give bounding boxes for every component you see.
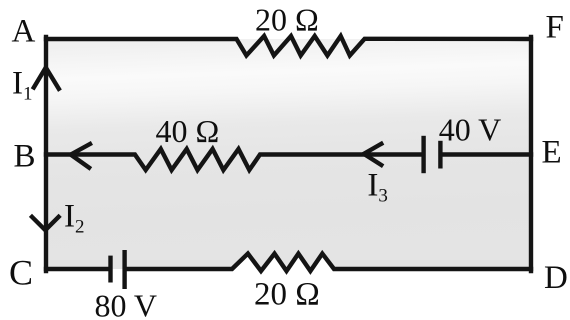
svg-text:20 Ω: 20 Ω: [254, 277, 320, 313]
svg-text:40 Ω: 40 Ω: [156, 113, 220, 149]
svg-text:C: C: [9, 253, 33, 293]
svg-text:I1: I1: [12, 66, 33, 105]
svg-text:E: E: [542, 135, 562, 171]
svg-text:A: A: [12, 14, 36, 50]
svg-text:40 V: 40 V: [439, 112, 502, 148]
svg-text:D: D: [544, 260, 568, 296]
svg-text:80 V: 80 V: [95, 288, 158, 320]
svg-text:20 Ω: 20 Ω: [255, 2, 319, 38]
svg-text:F: F: [546, 10, 564, 46]
svg-text:B: B: [14, 139, 36, 175]
